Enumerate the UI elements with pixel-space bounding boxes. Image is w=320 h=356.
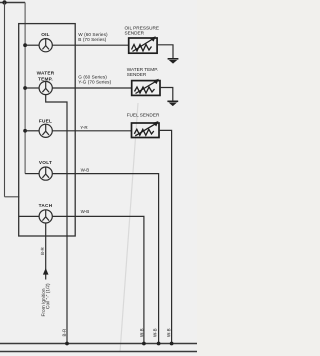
gauge WATER TEMP: [25, 81, 52, 94]
wire: oil gauge to sender: [52, 44, 128, 46]
svg-text:TEMP.: TEMP.: [38, 76, 53, 81]
node: fuel sender wire to bus: [170, 342, 174, 346]
wire: outer left vertical: [4, 3, 6, 197]
svg-text:Coil “-” (1/2): Coil “-” (1/2): [45, 283, 51, 309]
svg-text:W-B: W-B: [166, 328, 171, 337]
wire: feed vertical into cluster: [24, 3, 26, 174]
wire: water sender to ground: [160, 88, 173, 101]
wire: oil sender to ground: [157, 45, 173, 59]
wire: volt gauge to bottom bus: [52, 174, 158, 344]
svg-text:Y-G (70 Series): Y-G (70 Series): [78, 80, 111, 85]
svg-text:FUEL SENDER: FUEL SENDER: [127, 113, 160, 118]
svg-text:TACH: TACH: [39, 203, 53, 208]
svg-text:VOLT: VOLT: [39, 160, 52, 165]
gauge FUEL: [25, 124, 52, 137]
svg-text:SENDER: SENDER: [125, 31, 145, 36]
node: volt wire to bus: [157, 342, 161, 346]
gauge TACH: [19, 210, 53, 223]
instrument cluster box: [19, 24, 75, 236]
node: oil feed junction: [23, 43, 27, 47]
arrow from ignition coil: [43, 268, 49, 275]
svg-text:B-R: B-R: [40, 246, 45, 255]
ground (oil sender): [168, 59, 179, 64]
node: tach wire to bus: [142, 342, 146, 346]
wire: fuel sender to bottom bus: [159, 130, 172, 343]
svg-text:OIL: OIL: [41, 32, 50, 37]
node: top-left junction: [2, 0, 6, 4]
node: water feed junction: [23, 86, 27, 90]
wire: top feed horizontal: [0, 2, 25, 4]
bottom bus 2: [0, 351, 197, 353]
svg-text:B-R: B-R: [62, 328, 67, 337]
wire: tach gauge to bottom bus: [52, 216, 144, 343]
wire: left connector to cluster: [5, 196, 20, 198]
gauge VOLT: [25, 167, 52, 180]
node: fuel feed junction: [23, 129, 27, 133]
svg-text:W-B: W-B: [81, 167, 90, 172]
gauge OIL: [25, 39, 52, 52]
svg-text:W-B: W-B: [81, 209, 90, 214]
svg-text:W-B: W-B: [139, 328, 144, 337]
svg-text:FUEL: FUEL: [39, 119, 52, 124]
node: water wire to bus: [65, 342, 69, 346]
wire: water gauge ground drop: [46, 95, 67, 344]
bottom bus 1: [0, 343, 197, 345]
wire: tach to ignition coil: [45, 223, 47, 280]
svg-text:W-B: W-B: [152, 328, 157, 337]
wire: fuel gauge to sender: [52, 130, 131, 132]
wire: water gauge to sender: [52, 87, 131, 89]
svg-text:SENDER: SENDER: [127, 72, 147, 77]
svg-text:Y-R: Y-R: [80, 125, 88, 130]
ground (water sender): [167, 101, 178, 106]
svg-text:B (70 Series): B (70 Series): [78, 37, 106, 42]
svg-text:WATER: WATER: [37, 71, 55, 76]
